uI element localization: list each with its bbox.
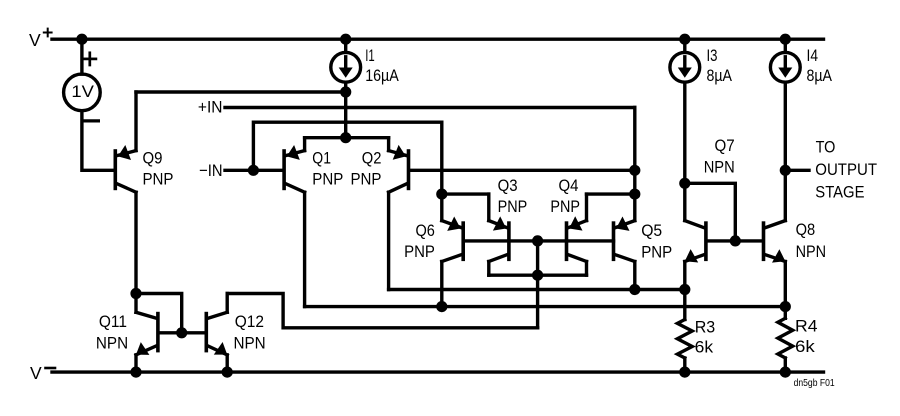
- svg-text:R3: R3: [695, 318, 716, 337]
- wire Q2/Q5 collector line to R3: [389, 288, 685, 291]
- label I3: [707, 46, 733, 85]
- svg-text:STAGE: STAGE: [815, 182, 864, 201]
- svg-text:PNP: PNP: [143, 170, 174, 189]
- svg-text:PNP: PNP: [312, 170, 343, 189]
- wire Q2 collector: [387, 192, 390, 289]
- wire Q4 emitter stub: [587, 194, 635, 221]
- resistor R3 6k: [677, 290, 692, 373]
- node I3/Q7 link junction: [679, 178, 690, 189]
- label +IN: [198, 98, 223, 117]
- wire V+ rail: [52, 38, 824, 41]
- wire base bus drop: [536, 241, 539, 328]
- label Q12: [234, 312, 266, 352]
- label V1 plus sign: [84, 53, 96, 65]
- node I1/Q9 junction: [340, 86, 351, 97]
- wire Q11 collector stub: [134, 294, 137, 313]
- wire Q1 emitter stub: [303, 138, 306, 151]
- label R4: [795, 317, 818, 357]
- node +IN/Q2 base junction: [629, 165, 640, 176]
- wire Q6 emitter stub: [440, 194, 443, 221]
- voltage source V1 1V: [64, 74, 101, 111]
- label Q11: [96, 312, 128, 352]
- wire I4 top: [784, 39, 787, 52]
- svg-text:Q9: Q9: [143, 148, 163, 167]
- wire Q3/Q4 coupling line: [489, 274, 587, 277]
- wire I1 to input pair: [344, 82, 347, 138]
- current source I4 8µA: [770, 52, 800, 82]
- node −IN junction: [248, 165, 259, 176]
- svg-text:I1: I1: [365, 46, 375, 65]
- node I4/output junction: [780, 165, 791, 176]
- wire Q6 collector drop: [440, 262, 443, 307]
- label Q9: [143, 148, 174, 188]
- node V+/I4 junction: [780, 34, 791, 45]
- label TO OUTPUT STAGE: [815, 137, 877, 201]
- node V+/I1 junction: [340, 34, 351, 45]
- wire Q12 collector stub: [225, 294, 228, 313]
- svg-text:+IN: +IN: [198, 98, 223, 117]
- node Q7/Q8 base junction: [730, 235, 741, 246]
- label Q6: [404, 221, 435, 261]
- wire Q9 emitter to I1: [136, 90, 346, 93]
- transistor Q9 (PNP): [115, 145, 136, 192]
- wire Q7/Q8 base link: [708, 239, 762, 242]
- node R4 bottom junction: [780, 367, 791, 378]
- svg-text:Q8: Q8: [796, 220, 816, 239]
- wire 1V bottom to Q9 base: [82, 111, 114, 171]
- label V+: [29, 29, 52, 50]
- label I1: [365, 46, 399, 85]
- wire Q5 emitter stub: [633, 194, 636, 221]
- node coupling/base-drop junction: [532, 270, 543, 281]
- label −IN: [199, 161, 222, 180]
- wire V− rail: [52, 370, 824, 373]
- svg-text:TO: TO: [816, 137, 836, 156]
- label Q2: [351, 148, 382, 188]
- svg-text:V: V: [30, 363, 42, 383]
- svg-text:Q2: Q2: [362, 148, 382, 167]
- wire Q4 collector drop: [585, 262, 588, 276]
- svg-text:I4: I4: [807, 46, 819, 65]
- wire I3 top: [683, 39, 686, 52]
- node V+/I3 junction: [679, 34, 690, 45]
- wire Q9 emitter up: [134, 92, 137, 151]
- node Q5 collector junction: [629, 284, 640, 295]
- transistor Q7 (NPN): [685, 221, 706, 263]
- svg-text:PNP: PNP: [550, 197, 580, 216]
- svg-text:Q5: Q5: [641, 221, 662, 240]
- wire Q7 collector-base link: [685, 183, 736, 241]
- svg-text:NPN: NPN: [96, 334, 128, 353]
- wire I3 to Q7 collector: [683, 82, 686, 220]
- node Q6 collector junction: [436, 301, 447, 312]
- wire mirror return line: [227, 294, 537, 328]
- svg-text:PNP: PNP: [498, 197, 528, 216]
- node left cascode node: [436, 189, 447, 200]
- svg-text:NPN: NPN: [704, 157, 735, 176]
- wire Q2 base line: [410, 169, 635, 172]
- svg-text:−IN: −IN: [199, 161, 222, 180]
- svg-text:16µA: 16µA: [365, 66, 399, 85]
- transistor Q5 (PNP): [614, 217, 635, 262]
- node V+/1V junction: [76, 34, 87, 45]
- svg-text:Q4: Q4: [559, 176, 579, 195]
- transistor Q12 (NPN): [206, 312, 227, 355]
- wire Q2 emitter stub: [387, 138, 390, 151]
- svg-text:PNP: PNP: [641, 242, 672, 261]
- wire Q12 emitter to rail: [225, 355, 228, 372]
- svg-text:NPN: NPN: [796, 242, 827, 261]
- wire output stub: [785, 169, 809, 172]
- node R3 bottom junction: [679, 367, 690, 378]
- svg-text:dn5gb F01: dn5gb F01: [794, 377, 835, 389]
- current source I1 16µA: [331, 52, 361, 82]
- transistor Q11 (NPN): [136, 312, 158, 355]
- svg-text:PNP: PNP: [351, 170, 382, 189]
- wire −IN line: [225, 169, 282, 172]
- node Q9/Q11 collector junction: [130, 288, 141, 299]
- wire 1V source top: [80, 39, 83, 74]
- node base bus centre: [532, 235, 543, 246]
- wire Q1/Q6 collector line to R4: [305, 305, 786, 308]
- label R3: [695, 318, 716, 357]
- svg-text:6k: 6k: [795, 337, 815, 356]
- wire Q3 emitter stub: [442, 194, 489, 221]
- svg-text:PNP: PNP: [404, 242, 435, 261]
- wire Q8 emitter drop: [784, 262, 787, 307]
- transistor Q3 (PNP): [489, 216, 509, 261]
- node Q11 emitter junction: [130, 367, 141, 378]
- label V1 minus sign: [84, 119, 98, 122]
- node Q12 emitter junction: [222, 367, 233, 378]
- label I4: [807, 46, 833, 85]
- svg-text:6k: 6k: [695, 338, 714, 357]
- svg-text:Q1: Q1: [312, 148, 331, 167]
- svg-text:V: V: [29, 30, 41, 50]
- wire +IN line: [225, 106, 635, 109]
- svg-text:I3: I3: [707, 46, 718, 65]
- label V−: [30, 363, 55, 383]
- wire Q11 collector-base link: [136, 294, 182, 333]
- wire Q11 emitter to rail: [134, 355, 137, 372]
- svg-text:Q12: Q12: [235, 312, 264, 331]
- svg-text:1V: 1V: [71, 82, 94, 101]
- wire Q7 emitter drop: [683, 262, 686, 290]
- svg-text:Q11: Q11: [99, 312, 127, 331]
- node Q8 emitter/R4 junction: [780, 301, 791, 312]
- svg-text:8µA: 8µA: [707, 66, 733, 85]
- transistor Q2 (PNP): [389, 145, 409, 192]
- transistor Q8 (NPN): [764, 221, 786, 263]
- label Q1: [312, 148, 343, 188]
- label Q4: [550, 176, 580, 216]
- svg-text:8µA: 8µA: [807, 66, 833, 85]
- svg-text:Q3: Q3: [498, 176, 518, 195]
- current source I3 8µA: [670, 52, 700, 82]
- wire −IN riser: [253, 122, 441, 194]
- label figure number dn5gb F01: [794, 377, 835, 389]
- label Q7: [704, 136, 735, 177]
- wire I1 top: [344, 39, 347, 52]
- wire I4 to Q8 collector: [784, 82, 787, 220]
- node Q1/Q2 emitters: [340, 132, 351, 143]
- wire Q9 collector: [134, 192, 137, 293]
- wire +IN riser: [633, 108, 636, 195]
- resistor R4 6k: [778, 307, 793, 373]
- svg-text:NPN: NPN: [234, 334, 266, 353]
- label Q8: [796, 220, 827, 261]
- svg-text:R4: R4: [795, 317, 818, 336]
- node Q7 emitter/R3 junction: [679, 284, 690, 295]
- transistor Q6 (PNP): [442, 217, 463, 262]
- wire Q1 collector: [303, 192, 306, 306]
- wire Q3 collector drop: [487, 262, 490, 276]
- svg-text:Q6: Q6: [416, 221, 435, 240]
- svg-text:OUTPUT: OUTPUT: [815, 160, 877, 179]
- node right cascode node: [629, 189, 640, 200]
- label Q5: [641, 221, 672, 262]
- wire Q5 collector drop: [633, 262, 636, 290]
- svg-text:Q7: Q7: [715, 136, 735, 155]
- transistor Q4 (PNP): [567, 216, 587, 261]
- wire base bus Q6-Q3-Q4-Q5: [463, 239, 613, 242]
- wire emitter bus: [305, 136, 389, 139]
- label Q3: [498, 176, 528, 216]
- wire Q11/Q12 base link: [160, 331, 205, 334]
- transistor Q1 (PNP): [284, 145, 305, 192]
- node Q11/Q12 base junction: [176, 327, 187, 338]
